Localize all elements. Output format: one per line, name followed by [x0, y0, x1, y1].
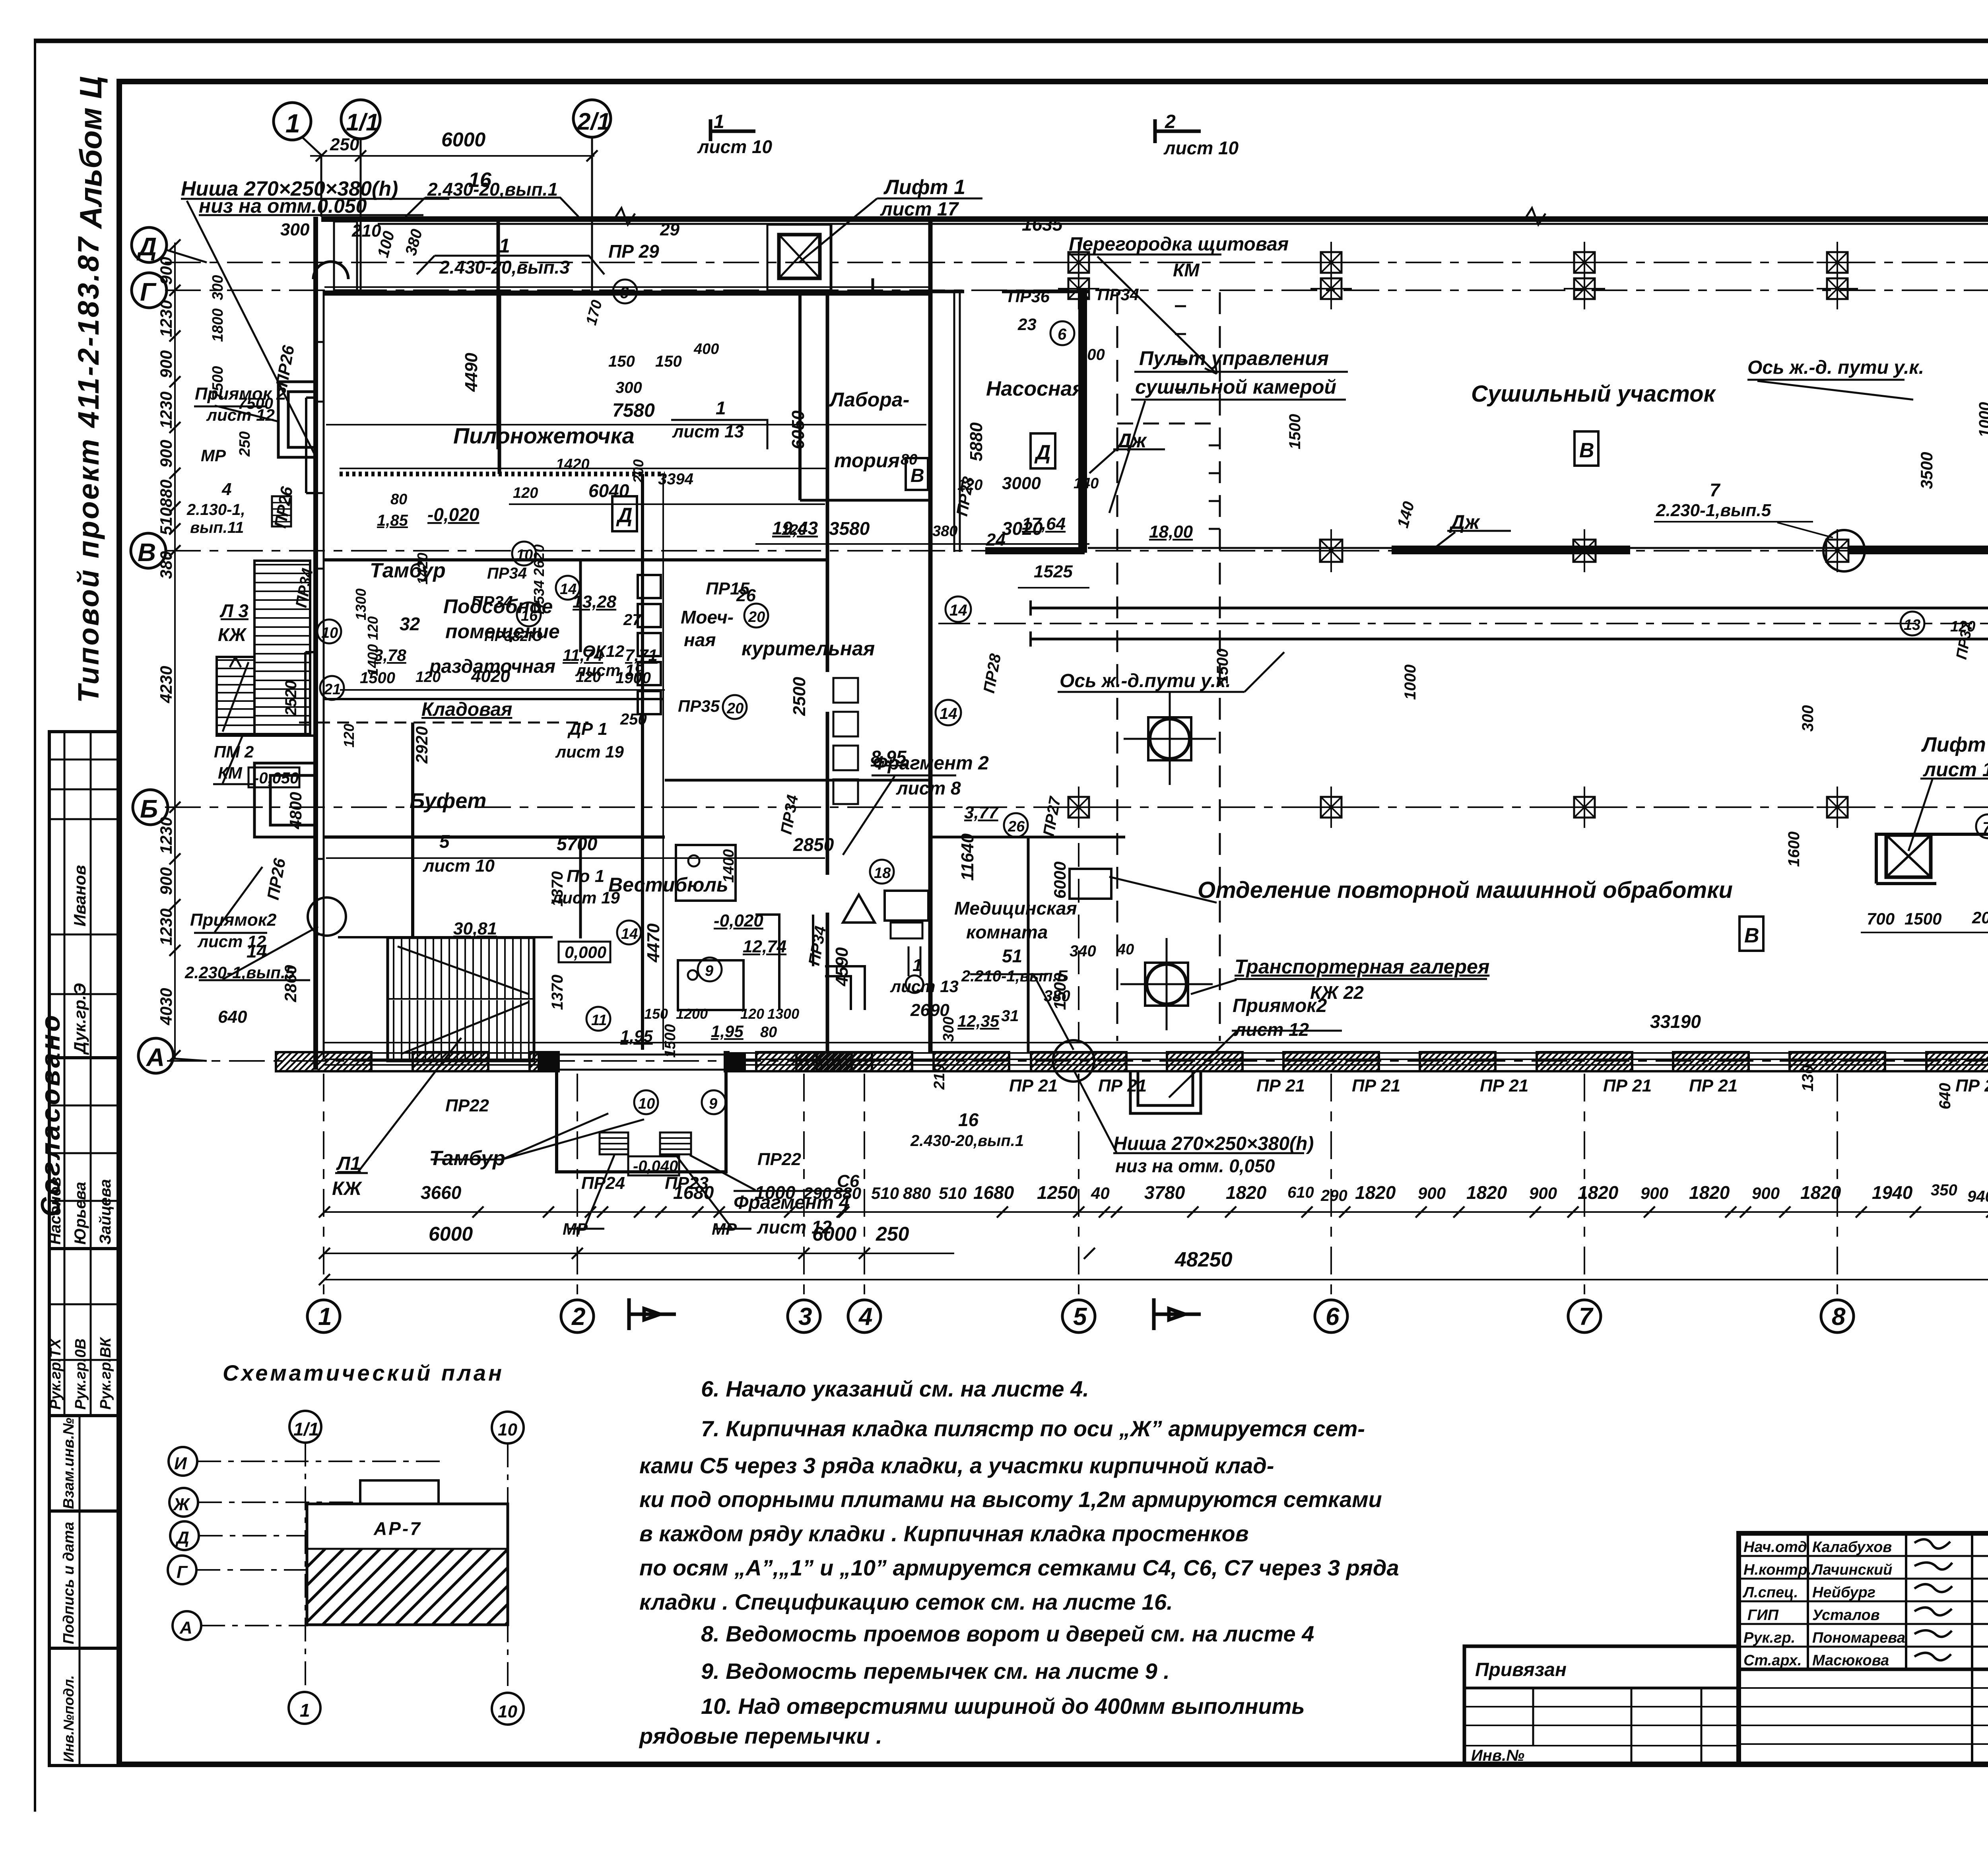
svg-text:640: 640: [218, 1007, 247, 1027]
svg-text:1: 1: [285, 109, 300, 138]
axis A dashdot: [167, 1060, 1988, 1062]
svg-text:Калабухов: Калабухов: [1812, 1539, 1892, 1556]
svg-text:1300: 1300: [767, 1006, 799, 1022]
leader L1: [335, 1038, 461, 1173]
svg-text:880: 880: [833, 1184, 861, 1202]
axis 2 circle: [561, 1300, 594, 1332]
svg-text:Взам.инв.№: Взам.инв.№: [60, 1418, 77, 1509]
leader tambur bottom: [431, 1113, 644, 1160]
schematic axis lines vertical: [305, 1443, 508, 1693]
svg-text:1680: 1680: [673, 1182, 714, 1203]
svg-text:1,95: 1,95: [711, 1022, 744, 1041]
svg-text:1370: 1370: [549, 871, 566, 907]
svg-text:1: 1: [912, 956, 922, 975]
svg-text:ПР35: ПР35: [678, 697, 720, 715]
svg-text:3580: 3580: [829, 518, 870, 539]
svg-text:ПР34: ПР34: [471, 592, 513, 611]
stairs small flight: [217, 657, 254, 736]
leader 51 element: [970, 974, 1074, 1050]
column axis V x4621: [1816, 529, 1859, 572]
axis 2 stub: [577, 1074, 578, 1299]
svg-text:ПР 21: ПР 21: [1256, 1076, 1305, 1096]
svg-text:ПР 21: ПР 21: [1603, 1076, 1652, 1096]
svg-text:низ на отм. 0,050: низ на отм. 0,050: [1115, 1156, 1275, 1176]
svg-text:350: 350: [1931, 1181, 1957, 1199]
axis Bb dashdot: [165, 806, 1988, 808]
svg-text:Усталов: Усталов: [1812, 1607, 1880, 1624]
column axis G x2713: [1058, 268, 1099, 309]
left wall window marks: [313, 342, 324, 934]
svg-text:1500: 1500: [1050, 973, 1069, 1010]
schematic axis Ж: [169, 1488, 198, 1517]
svg-text:340: 340: [1070, 942, 1096, 960]
left dim numbers: [157, 257, 175, 1026]
svg-text:300: 300: [940, 1017, 957, 1042]
svg-text:КЖ: КЖ: [218, 624, 247, 645]
column axis D x3348: [1310, 242, 1352, 283]
ПР21 labels: [1009, 1076, 1988, 1096]
svg-text:51: 51: [1002, 946, 1022, 966]
svg-text:1: 1: [318, 1303, 332, 1331]
dim row1 ticks: [319, 1206, 1988, 1218]
svg-text:10: 10: [498, 1702, 517, 1721]
-0.040 box: [628, 1156, 679, 1175]
partition dashed pult: [1117, 423, 1220, 425]
schematic axis lines horizontal: [196, 1461, 445, 1626]
svg-text:900: 900: [157, 440, 175, 468]
leader PM2: [213, 736, 254, 784]
wall smoking south: [665, 779, 930, 782]
column axis B x4621: [1817, 787, 1858, 828]
svg-text:вып.11: вып.11: [190, 519, 244, 536]
lift2 room walls: [1876, 834, 1988, 884]
svg-text:3660: 3660: [421, 1182, 462, 1203]
svg-text:210: 210: [931, 1064, 948, 1090]
round column 1: [1124, 693, 1216, 785]
svg-text:-0,020: -0,020: [427, 504, 480, 525]
leader osi zhd 1: [1058, 652, 1284, 692]
svg-text:10: 10: [498, 1420, 517, 1439]
axis D leader: [166, 250, 207, 262]
vert wall bufet east: [411, 723, 414, 938]
svg-text:8: 8: [1832, 1303, 1846, 1331]
svg-text:8. Ведомость проемов ворот: 8. Ведомость проемов ворот и дверей см. …: [701, 1621, 1314, 1646]
svg-text:1/1: 1/1: [293, 1419, 319, 1439]
svg-text:31: 31: [1001, 1007, 1019, 1025]
gamma wall left block: [324, 291, 930, 296]
dim row3 line: [324, 1279, 1988, 1280]
svg-text:ПР 21: ПР 21: [1352, 1076, 1400, 1096]
svg-text:7. Кирпичная кладка пилястр: 7. Кирпичная кладка пилястр по оси „Ж” а…: [701, 1416, 1365, 1441]
svg-text:1000: 1000: [1402, 664, 1419, 700]
leader dzh1: [1089, 449, 1165, 473]
axis 6 stub: [1330, 1074, 1332, 1299]
axis B circle: [133, 790, 168, 825]
leader 1 lintel top: [417, 256, 604, 274]
svg-text:Пономарева: Пономарева: [1812, 1630, 1905, 1646]
svg-text:лист 12: лист 12: [1234, 1019, 1309, 1040]
svg-text:Сушильный участок: Сушильный участок: [1471, 381, 1716, 407]
svg-text:2500: 2500: [790, 677, 809, 716]
svg-text:Пульт управления: Пульт управления: [1139, 347, 1329, 369]
schematic portico: [360, 1480, 439, 1504]
svg-text:ДР 1: ДР 1: [567, 719, 608, 739]
top axis circle 2/1: [573, 100, 611, 293]
svg-text:900: 900: [157, 867, 175, 895]
svg-text:ПР 21: ПР 21: [1480, 1076, 1528, 1096]
svg-text:Кладовая: Кладовая: [421, 699, 512, 720]
moechnaya fixture squares: [638, 575, 661, 598]
svg-text:1680: 1680: [973, 1182, 1014, 1203]
svg-text:900: 900: [157, 350, 175, 378]
vert wall tambur32: [498, 295, 501, 474]
column axis G x3985: [1564, 268, 1605, 309]
leader lift2: [1908, 779, 1988, 851]
axis V wall dark band 1: [1392, 546, 1630, 554]
svg-text:Фрагмент 2: Фрагмент 2: [873, 753, 989, 774]
axis V circle: [131, 533, 166, 568]
svg-text:ПР 21: ПР 21: [1955, 1076, 1988, 1096]
svg-text:-0,020: -0,020: [714, 911, 763, 930]
svg-text:1500: 1500: [1286, 414, 1304, 449]
schematic axis А: [173, 1611, 201, 1640]
svg-text:900: 900: [1752, 1184, 1780, 1202]
circled 6: [613, 280, 637, 303]
svg-text:-0,050: -0,050: [254, 769, 299, 787]
svg-text:Альбом Ц: Альбом Ц: [73, 76, 108, 229]
circled 14d: [556, 576, 580, 600]
svg-text:лист 18: лист 18: [1923, 758, 1988, 781]
svg-text:9: 9: [709, 1096, 717, 1112]
svg-text:Насонов: Насонов: [47, 1177, 64, 1245]
svg-text:380: 380: [932, 523, 957, 540]
svg-text:1,95: 1,95: [620, 1027, 653, 1045]
svg-text:250: 250: [876, 1223, 909, 1245]
svg-text:4020: 4020: [471, 666, 510, 686]
svg-text:14: 14: [621, 926, 638, 942]
svg-text:900: 900: [157, 257, 175, 285]
svg-text:6000: 6000: [1050, 862, 1069, 899]
svg-text:80: 80: [390, 491, 407, 508]
svg-text:32: 32: [400, 614, 420, 634]
svg-text:Г: Г: [140, 278, 157, 306]
leader lift1: [799, 198, 982, 262]
svg-text:ками С5 через 3 ряда кладки: ками С5 через 3 ряда кладки, а участки к…: [639, 1453, 1274, 1478]
svg-text:1: 1: [714, 111, 724, 132]
svg-text:Д: Д: [136, 232, 157, 261]
column axis B x3985: [1564, 787, 1605, 828]
axis 4 circle: [848, 1300, 881, 1332]
svg-text:26: 26: [736, 586, 756, 605]
privyazan grid rows: [1464, 1707, 1739, 1746]
leader transporter: [1109, 877, 1487, 994]
svg-text:10: 10: [638, 1096, 655, 1112]
schematic midline: [307, 1548, 508, 1550]
svg-text:2860: 2860: [281, 965, 300, 1002]
leader fragment2 top: [843, 775, 956, 855]
svg-text:лист 10: лист 10: [1163, 138, 1239, 158]
nasosnaya west wall: [953, 290, 955, 552]
svg-text:Ось ж.-д. пути у.к.: Ось ж.-д. пути у.к.: [1747, 357, 1924, 378]
loading lift walls: [831, 225, 873, 290]
tambour mat 1: [600, 1132, 628, 1154]
svg-text:В: В: [1744, 924, 1759, 947]
svg-text:7: 7: [1710, 480, 1721, 500]
svg-text:2.130-1,: 2.130-1,: [186, 501, 245, 519]
svg-text:Лабора-: Лабора-: [829, 388, 909, 411]
label D boxed left: [612, 496, 637, 531]
rails tick ends: [1031, 600, 1988, 647]
svg-text:ПР34: ПР34: [487, 565, 527, 582]
section mark 1 bottom: [629, 1298, 676, 1330]
vest west wall: [579, 839, 582, 938]
svg-text:4800: 4800: [286, 792, 305, 829]
svg-text:сушильной камерой: сушильной камерой: [1135, 376, 1336, 398]
leader 14 element left: [199, 927, 318, 980]
svg-text:Рук.гр.ТХ: Рук.гр.ТХ: [47, 1337, 64, 1410]
svg-text:4030: 4030: [157, 988, 175, 1026]
schematic axis Д: [170, 1521, 199, 1550]
svg-text:1940: 1940: [1872, 1182, 1913, 1203]
vert wall vestibule west: [579, 560, 582, 652]
axis 6 circle: [1315, 1300, 1347, 1332]
svg-text:250: 250: [237, 431, 253, 457]
svg-text:1500: 1500: [1905, 909, 1941, 928]
svg-text:ПР 21: ПР 21: [1009, 1076, 1058, 1096]
svg-text:150: 150: [644, 1006, 668, 1022]
svg-text:1500: 1500: [360, 669, 395, 687]
svg-text:Рук.гр.ВК: Рук.гр.ВК: [97, 1336, 114, 1410]
svg-text:48250: 48250: [1175, 1248, 1233, 1271]
vert wall moechnaya divider: [641, 474, 644, 1054]
svg-text:120: 120: [415, 669, 441, 686]
leader niche top: [181, 199, 449, 457]
svg-text:Д: Д: [1034, 441, 1051, 464]
top axis circle 1/1: [341, 100, 380, 290]
svg-text:23: 23: [1017, 315, 1037, 334]
title block main outline: [1739, 1533, 1988, 1764]
left dim chain2 numbers: [210, 275, 226, 400]
left dim chain line: [174, 243, 176, 1060]
svg-text:200: 200: [630, 459, 646, 484]
svg-text:В: В: [138, 538, 156, 567]
svg-text:1820: 1820: [1689, 1182, 1730, 1203]
svg-text:400: 400: [693, 341, 719, 357]
svg-text:ПМ 2: ПМ 2: [214, 742, 254, 761]
svg-text:Иванов: Иванов: [70, 865, 89, 927]
svg-text:АР-7: АР-7: [373, 1518, 422, 1539]
bottom axis stubs and circles: [307, 1074, 1988, 1332]
svg-text:12,74: 12,74: [743, 937, 786, 956]
svg-text:40: 40: [1091, 1184, 1110, 1202]
axis 5 circle: [1062, 1300, 1095, 1332]
rails horizontal: [1031, 608, 1988, 639]
svg-text:Д: Д: [175, 1528, 189, 1548]
svg-text:Л 3: Л 3: [219, 600, 248, 621]
svg-text:26: 26: [1008, 818, 1025, 835]
svg-text:по осям „А”,„1” и „10” армир: по осям „А”,„1” и „10” армируется сеткам…: [639, 1555, 1399, 1580]
svg-text:940: 940: [1967, 1188, 1988, 1205]
0.000 box: [559, 942, 610, 962]
svg-text:900: 900: [1529, 1184, 1557, 1202]
svg-text:Нач.отд: Нач.отд: [1743, 1539, 1807, 1556]
svg-text:МР: МР: [201, 446, 226, 465]
bottom exterior wall with piers: [276, 1052, 1988, 1071]
wall razdatochnaya top: [324, 558, 827, 561]
circled 26: [1004, 813, 1028, 837]
svg-text:1525: 1525: [1034, 562, 1073, 581]
svg-text:Ось ж.-д.пути у.к.: Ось ж.-д.пути у.к.: [1060, 670, 1231, 691]
left wall pier bumps: [305, 398, 316, 736]
circled 11: [586, 1007, 610, 1031]
svg-text:ПР36: ПР36: [1008, 287, 1050, 306]
circled 10b: [634, 1090, 658, 1114]
svg-text:1820: 1820: [1466, 1182, 1507, 1203]
svg-text:250: 250: [330, 135, 359, 154]
wall kladovaya dashed: [299, 722, 588, 724]
svg-text:Типовой проект 411-2-183.87: Типовой проект 411-2-183.87: [72, 236, 105, 703]
svg-text:33190: 33190: [1650, 1011, 1701, 1032]
svg-text:Отделение повторной машинной: Отделение повторной машинной обработки: [1198, 877, 1733, 903]
svg-text:380: 380: [157, 551, 175, 579]
svg-text:Рук.гр.0В: Рук.гр.0В: [72, 1338, 89, 1410]
svg-text:1900: 1900: [615, 669, 651, 687]
svg-text:4590: 4590: [832, 947, 852, 987]
svg-text:1230: 1230: [157, 392, 175, 429]
pult steps marks: [1175, 306, 1220, 529]
svg-text:ПР24: ПР24: [581, 1173, 625, 1193]
svg-text:4: 4: [858, 1303, 872, 1331]
svg-text:1230: 1230: [157, 909, 175, 946]
svg-text:30,81: 30,81: [453, 919, 497, 938]
svg-text:1230: 1230: [157, 817, 175, 854]
svg-text:1300: 1300: [353, 589, 369, 620]
svg-text:6050: 6050: [788, 410, 808, 449]
svg-text:КЖ: КЖ: [332, 1178, 363, 1199]
svg-text:11640: 11640: [958, 833, 977, 881]
svg-text:13: 13: [1904, 617, 1920, 633]
axis A leader: [173, 1059, 207, 1061]
svg-text:10. Над отверстиями шириной: 10. Над отверстиями шириной до 400мм вып…: [701, 1694, 1305, 1719]
svg-text:Б: Б: [140, 794, 158, 823]
svg-text:5: 5: [439, 831, 450, 852]
circled 14b: [936, 700, 961, 725]
axis D dashdot: [165, 262, 1988, 263]
svg-text:0,000: 0,000: [565, 943, 606, 961]
svg-text:6: 6: [619, 283, 629, 302]
svg-text:1800: 1800: [210, 308, 226, 342]
svg-text:Тамбур: Тамбур: [370, 559, 446, 582]
element 51 circle: [1053, 1040, 1094, 1082]
svg-text:комната: комната: [966, 922, 1048, 942]
leader nisha mid: [1074, 1070, 1304, 1153]
svg-text:10: 10: [516, 547, 533, 563]
svg-text:1500: 1500: [1214, 649, 1231, 684]
svg-text:120: 120: [576, 669, 601, 686]
axis V wall dark band 2: [1849, 546, 1988, 554]
leader dzh2: [1427, 531, 1511, 554]
axis 8 circle: [1821, 1300, 1854, 1332]
svg-text:Ниша 270×250×380(h): Ниша 270×250×380(h): [1113, 1133, 1314, 1154]
lift2 shaft: [1886, 835, 1931, 877]
round column 2: [1120, 938, 1213, 1030]
axis 4 stub: [864, 1074, 865, 1299]
section mark 2 bottom: [1154, 1298, 1201, 1330]
svg-text:лист 17: лист 17: [880, 199, 959, 220]
svg-text:Юрьева: Юрьева: [72, 1182, 89, 1245]
svg-text:80: 80: [760, 1024, 777, 1041]
left annex pit upper: [278, 382, 316, 457]
svg-text:ки под опорными плитами на: ки под опорными плитами на высоту 1,2м а…: [639, 1487, 1382, 1512]
svg-text:130: 130: [1799, 1065, 1817, 1092]
section mark 1 top: [711, 119, 755, 141]
top strip line: [35, 39, 1988, 43]
label V boxed lab: [906, 458, 928, 490]
svg-text:210: 210: [351, 221, 381, 241]
svg-text:Инв.№: Инв.№: [1471, 1747, 1524, 1764]
svg-text:Зайцева: Зайцева: [97, 1179, 114, 1245]
svg-text:Г: Г: [177, 1562, 188, 1582]
svg-text:1820: 1820: [1355, 1182, 1396, 1203]
svg-text:КМ: КМ: [218, 763, 243, 782]
svg-text:1/1: 1/1: [346, 109, 379, 136]
signature table: [49, 732, 119, 1416]
svg-text:Дук.гр.Э: Дук.гр.Э: [70, 983, 89, 1055]
section mark 2 top: [1155, 119, 1201, 143]
leader 1 list13 top: [671, 420, 767, 449]
column axis V x3348: [1310, 529, 1353, 572]
svg-text:1: 1: [300, 1700, 310, 1721]
svg-text:40: 40: [1117, 941, 1134, 958]
svg-text:600: 600: [1078, 346, 1105, 363]
svg-text:А: А: [179, 1618, 192, 1637]
svg-text:2.230-1,вып.5: 2.230-1,вып.5: [1656, 501, 1771, 520]
svg-text:ПР 21: ПР 21: [1098, 1076, 1147, 1096]
svg-text:300: 300: [280, 220, 310, 239]
circled 9a: [698, 958, 722, 981]
nasosnaya east wall thick: [1078, 289, 1087, 553]
svg-text:120: 120: [513, 485, 538, 501]
svg-text:1420: 1420: [556, 456, 590, 473]
signature texts: [1742, 1539, 1905, 1669]
left exterior wall: [313, 217, 318, 1070]
svg-text:1820: 1820: [1578, 1182, 1619, 1203]
label V boxed 2: [1739, 917, 1763, 951]
entrance flank piers: [538, 1052, 560, 1071]
svg-text:2850: 2850: [793, 834, 834, 855]
svg-text:Л1: Л1: [336, 1153, 361, 1174]
label V boxed hall: [1574, 431, 1598, 466]
vert wall niche strip: [497, 221, 500, 449]
leader fragment4: [690, 1155, 851, 1191]
tambour mat 2: [660, 1132, 691, 1154]
dim row1 texts: [421, 1181, 1988, 1205]
leader priyamok left1: [194, 406, 278, 422]
svg-text:Насосная: Насосная: [986, 377, 1084, 400]
top axis circle 1: [274, 103, 321, 217]
axis D circle: [132, 227, 167, 262]
svg-text:900: 900: [1418, 1184, 1446, 1202]
column axis B x2713: [1058, 787, 1099, 828]
svg-text:Лифт 2: Лифт 2: [1921, 733, 1988, 756]
rail axis dashdot: [938, 623, 1988, 624]
svg-text:2: 2: [1165, 111, 1176, 132]
leader 16 lintel top: [406, 198, 579, 217]
svg-text:1000: 1000: [755, 1182, 796, 1203]
svg-text:1000: 1000: [1976, 402, 1988, 437]
circled 7 r: [1976, 814, 1988, 838]
circled 20b: [723, 695, 747, 719]
